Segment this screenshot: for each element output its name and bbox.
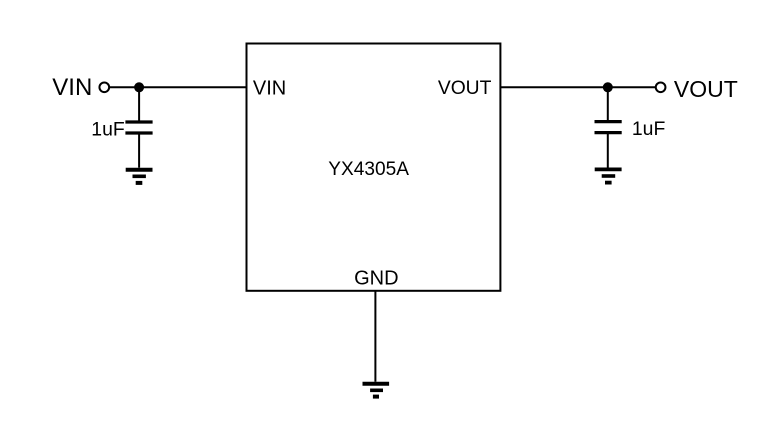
wire C2 to ground <box>607 134 609 168</box>
svg-text:1uF: 1uF <box>91 118 125 140</box>
wire junction A down to C1 <box>138 87 140 121</box>
terminal VOUT open circle <box>656 82 666 92</box>
svg-text:VOUT: VOUT <box>438 78 492 99</box>
junction node A (VIN rail / C1) <box>134 82 144 92</box>
wire VIN terminal to IC VIN pin <box>110 86 247 88</box>
wire IC GND pin down <box>374 291 376 382</box>
svg-text:GND: GND <box>354 267 398 289</box>
svg-text:VIN: VIN <box>52 74 92 101</box>
svg-text:VOUT: VOUT <box>674 76 738 102</box>
capacitor C1 plates <box>125 122 152 133</box>
terminal VIN open circle <box>99 82 109 92</box>
ground (bottom, under IC) <box>363 384 390 397</box>
ground (left, under C1) <box>126 170 153 183</box>
svg-text:VIN: VIN <box>253 77 286 99</box>
wire C1 to ground <box>138 134 140 168</box>
svg-text:1uF: 1uF <box>632 118 666 140</box>
ground (right, under C2) <box>595 169 622 182</box>
junction node B (VOUT rail / C2) <box>603 82 613 92</box>
svg-text:YX4305A: YX4305A <box>328 159 409 180</box>
IC U1 YX4305A body <box>247 44 501 291</box>
wire IC VOUT pin to VOUT terminal <box>500 86 655 88</box>
wire junction B down to C2 <box>607 87 609 120</box>
capacitor C2 plates <box>595 122 622 133</box>
